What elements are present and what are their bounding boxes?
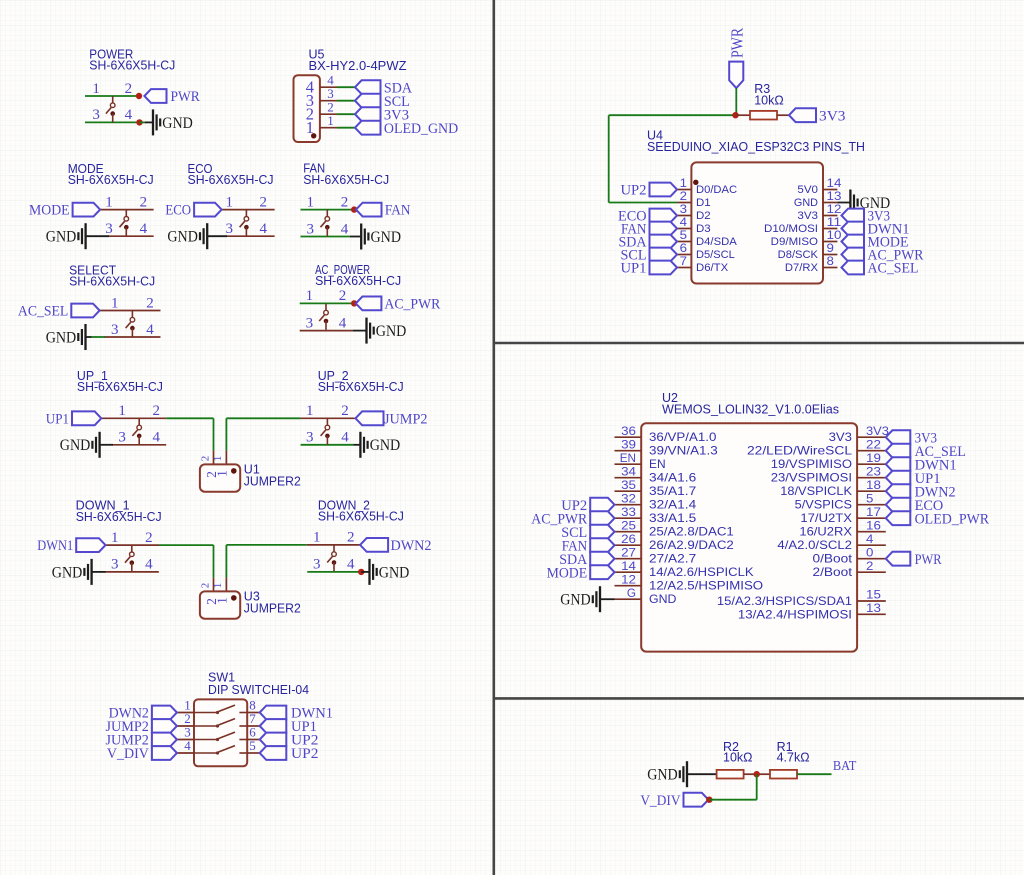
svg-text:GND: GND — [379, 564, 410, 581]
ic U4 pin 1 name D0/DAC — [696, 184, 737, 196]
ic U2 pin 32 number — [621, 491, 636, 505]
svg-text:D4/SDA: D4/SDA — [696, 236, 738, 248]
ic U2 pin 12 name 12/A2.5/HSPIMISO — [649, 579, 763, 593]
ic U2 pin 3V3 stub — [857, 436, 886, 438]
switch UP_2 labels — [318, 369, 404, 394]
wire UP_2 pin4 to ground — [354, 444, 361, 446]
ic U2 pin 22 stub — [857, 450, 886, 452]
junction dot R2 R1 — [754, 771, 760, 777]
svg-text:GND: GND — [376, 323, 407, 340]
svg-text:SEEDUINO_XIAO_ESP32C3 PINS_TH: SEEDUINO_XIAO_ESP32C3 PINS_TH — [647, 140, 865, 154]
svg-text:PWR: PWR — [171, 89, 200, 105]
svg-text:13: 13 — [866, 601, 881, 615]
net flag ECO at U2 pin 5 — [886, 498, 944, 514]
wire U2 pin G to ground — [600, 598, 615, 600]
switch MODE wires — [100, 210, 154, 237]
ic U2 pin 15 name 15/A2.3/HSPICS/SDA1 — [717, 594, 852, 608]
net flag V_DIV — [640, 793, 708, 809]
svg-text:4: 4 — [125, 107, 133, 123]
resistor R3 — [736, 111, 790, 120]
net flag JUMP2 at SW1 pin 3 — [106, 733, 177, 749]
svg-text:DWN2: DWN2 — [391, 538, 432, 554]
resistor R2 — [717, 770, 757, 779]
svg-text:4: 4 — [341, 430, 349, 446]
svg-text:33: 33 — [621, 505, 636, 519]
net flag ECO at U4 pin 3 — [618, 209, 677, 225]
svg-text:1: 1 — [118, 403, 126, 419]
jumper U3 body — [200, 591, 240, 618]
svg-text:15/A2.3/HSPICS/SDA1: 15/A2.3/HSPICS/SDA1 — [717, 594, 852, 608]
ground GND at U2 — [560, 586, 600, 612]
resistor R1 labels — [777, 740, 810, 765]
wire AC_POWER pin4 to ground — [353, 330, 367, 332]
svg-text:1: 1 — [306, 403, 314, 419]
svg-text:SH-6X6X5H-CJ: SH-6X6X5H-CJ — [69, 275, 155, 289]
jumper U1 pin numbers — [199, 456, 224, 462]
svg-text:2: 2 — [145, 530, 153, 546]
ic U2 pin 27 number — [621, 545, 636, 559]
net flag AC_SEL at U2 pin 22 — [886, 444, 966, 460]
net flag DWN2 — [360, 538, 431, 554]
dip switch SW1 pin 3 number — [184, 725, 191, 740]
svg-text:G: G — [627, 586, 636, 600]
svg-text:1: 1 — [111, 530, 119, 546]
svg-text:5: 5 — [866, 491, 874, 505]
switch AC_POWER labels — [315, 263, 401, 288]
ic U2 pin 34 name 34/A1.6 — [649, 471, 697, 485]
dip switch SW1 internal switch row 2 — [194, 719, 247, 728]
svg-text:14/A2.6/HSPICLK: 14/A2.6/HSPICLK — [649, 565, 754, 579]
net flag PWR vertical — [727, 28, 746, 88]
svg-text:33/A1.5: 33/A1.5 — [649, 511, 697, 525]
ic U2 pin 33 name 33/A1.5 — [649, 511, 697, 525]
ic U2 pin 4 name 4/A2.0/SCL2 — [777, 538, 852, 552]
net flag DWN1 at U2 pin 19 — [886, 457, 957, 473]
svg-text:26: 26 — [621, 532, 636, 546]
ic U4 pin 11 name D10/MOSI — [764, 223, 818, 235]
wire DOWN_1 pin3 to ground — [92, 571, 106, 573]
svg-text:JUMPER2: JUMPER2 — [244, 601, 301, 615]
switch SELECT labels — [69, 263, 155, 288]
svg-text:23/VSPIMOSI: 23/VSPIMOSI — [771, 471, 852, 485]
svg-text:3: 3 — [306, 315, 314, 331]
net flag FAN — [356, 203, 411, 219]
ic U4 pin 12 stub — [823, 215, 837, 217]
svg-text:4: 4 — [259, 221, 267, 237]
svg-text:D0/DAC: D0/DAC — [696, 184, 737, 196]
ic U2 pin 4 number — [866, 532, 874, 546]
dip switch SW1 pin 4 stub — [177, 752, 194, 754]
svg-text:6: 6 — [680, 241, 688, 255]
ic U4 pin 10 name D9/MISO — [771, 236, 818, 248]
ground GND at R2 — [647, 761, 687, 787]
connector U5 pin name 1 — [306, 118, 314, 137]
svg-text:14: 14 — [827, 176, 842, 190]
wire U5 pin 2 — [337, 113, 355, 115]
ic U2 pin 36 stub — [615, 436, 642, 438]
svg-text:GND: GND — [162, 115, 193, 132]
svg-text:1: 1 — [212, 583, 224, 589]
ic U2 pin 25 stub — [615, 531, 642, 533]
svg-text:11: 11 — [827, 215, 842, 229]
ic U4 pin 11 stub — [823, 228, 837, 230]
dip switch SW1 pin 5 number — [249, 738, 256, 753]
connector U5 pin 1 number — [327, 113, 334, 128]
svg-text:BX-HY2.0-4PWZ: BX-HY2.0-4PWZ — [309, 59, 407, 73]
net flag UP2 at U4 pin 1 — [621, 183, 678, 199]
net flag DWN1 at SW1 pin 8 — [260, 706, 333, 722]
switch SELECT wires — [100, 311, 161, 338]
ic U2 pin 4 stub — [857, 544, 886, 546]
svg-text:D1: D1 — [696, 197, 711, 209]
svg-text:GND: GND — [167, 229, 198, 246]
jumper U3 pin numbers — [199, 583, 224, 589]
ic U4 pin 14 number — [827, 176, 842, 190]
jumper U3 pin stubs — [214, 578, 227, 592]
svg-text:4: 4 — [146, 322, 154, 338]
ic U2 pin 2 name 2/Boot — [813, 565, 853, 579]
ground GND at UP_1 — [60, 432, 100, 458]
ic U4 body — [691, 162, 823, 283]
ic U2 pin 15 number — [866, 588, 881, 602]
svg-text:5: 5 — [249, 738, 256, 753]
svg-text:AC_SEL: AC_SEL — [18, 304, 68, 320]
svg-text:GND: GND — [371, 229, 402, 246]
dip switch SW1 pin 1 stub — [177, 712, 194, 714]
svg-text:D6/TX: D6/TX — [696, 262, 728, 274]
svg-text:ECO: ECO — [165, 203, 191, 219]
wire ECO pin3 to ground — [207, 235, 227, 237]
svg-text:1: 1 — [327, 113, 334, 128]
svg-text:23: 23 — [866, 464, 881, 478]
svg-text:SH-6X6X5H-CJ: SH-6X6X5H-CJ — [77, 380, 163, 394]
net flag AC_PWR at U4 pin 9 — [842, 248, 924, 264]
svg-text:2: 2 — [339, 288, 347, 304]
svg-text:4: 4 — [866, 532, 874, 546]
svg-text:4/A2.0/SCL2: 4/A2.0/SCL2 — [777, 538, 852, 552]
svg-text:15: 15 — [866, 588, 881, 602]
net flag SDA at U4 pin 5 — [619, 235, 678, 251]
svg-text:SH-6X6X5H-CJ: SH-6X6X5H-CJ — [188, 173, 274, 187]
switch POWER contact — [106, 96, 115, 123]
junction dot V_DIV — [706, 797, 712, 803]
ic U4 pin 7 number — [680, 254, 688, 268]
switch DOWN_1 contact — [125, 545, 134, 572]
switch UP_1 wires — [101, 418, 166, 445]
ic U2 pin 33 stub — [615, 517, 642, 519]
net flag 3V3 — [355, 107, 409, 123]
svg-text:4: 4 — [153, 430, 161, 446]
ic U2 pin 13 stub — [857, 613, 886, 615]
connector U5 pin 4 number — [327, 73, 334, 88]
svg-text:SH-6X6X5H-CJ: SH-6X6X5H-CJ — [89, 59, 175, 73]
jumper U3 pin names — [204, 597, 230, 605]
ic U2 pin 34 stub — [615, 477, 642, 479]
dip switch SW1 pin 6 stub — [247, 739, 260, 741]
svg-text:39/VN/A1.3: 39/VN/A1.3 — [649, 444, 718, 458]
svg-text:4: 4 — [341, 221, 349, 237]
net flag UP2 at SW1 pin 6 — [260, 733, 319, 749]
net flag JUMP2 — [356, 411, 428, 427]
ic U4 pin 13 name GND — [794, 197, 818, 209]
svg-text:3: 3 — [118, 430, 126, 446]
svg-text:3V3: 3V3 — [866, 424, 889, 438]
dip switch SW1 pin 4 number — [184, 738, 191, 753]
ic U2 pin 23 stub — [857, 477, 886, 479]
svg-text:22/LED/WireSCL: 22/LED/WireSCL — [747, 444, 852, 458]
ic U2 pin 17 stub — [857, 517, 886, 519]
switch ECO wires — [222, 210, 275, 237]
resistor R3 labels — [754, 82, 784, 108]
wire DOWN_2 pin4 to ground — [361, 571, 369, 573]
svg-text:GND: GND — [52, 564, 83, 581]
switch POWER pin numbers — [92, 81, 132, 123]
ic U2 pin 18 stub — [857, 490, 886, 492]
switch DOWN_1 pin numbers — [111, 530, 153, 573]
svg-text:2: 2 — [140, 194, 148, 210]
ground GND at SELECT — [46, 324, 86, 350]
resistor R2 labels — [723, 740, 753, 765]
ic U2 labels — [662, 391, 839, 417]
net flag FAN at U2 pin 26 — [562, 538, 615, 554]
connector U5 pin name 4 — [306, 78, 314, 97]
svg-text:GND: GND — [794, 197, 818, 209]
svg-text:1: 1 — [306, 194, 314, 210]
ic U2 pin 16 stub — [857, 531, 886, 533]
ic U2 pin EN number — [620, 451, 636, 465]
svg-text:17/U2TX: 17/U2TX — [800, 511, 852, 525]
svg-text:13: 13 — [827, 189, 842, 203]
svg-text:1: 1 — [212, 456, 224, 462]
ic U2 pin 5 stub — [857, 504, 886, 506]
ic U2 pin 23 number — [866, 464, 881, 478]
ground GND at POWER — [153, 109, 193, 135]
wire DOWN_2 pin1 to U3 pin1 — [226, 545, 306, 578]
net flag MODE at U2 pin 14 — [547, 565, 615, 581]
connector U5 body — [294, 75, 320, 142]
wire UP_1 pin2 to U1 pin2 — [166, 418, 213, 450]
ic U4 pin 10 number — [827, 228, 842, 242]
ic U4 pin 2 stub — [677, 202, 691, 204]
jumper U3 labels — [244, 589, 301, 615]
switch ECO contact — [240, 210, 249, 237]
net flag DWN1 — [37, 538, 105, 554]
jumper U1 body — [200, 464, 240, 491]
svg-text:5/VSPICS: 5/VSPICS — [795, 498, 852, 512]
junction dot AC_POWER pin2 — [351, 300, 357, 306]
ic U2 pin 12 number — [621, 572, 636, 586]
switch UP_1 pin numbers — [118, 403, 160, 446]
jumper U3 pin1 indicator dot — [231, 595, 237, 601]
junction dot PWR R3 — [732, 112, 738, 118]
svg-text:GND: GND — [46, 229, 77, 246]
svg-text:1: 1 — [92, 81, 100, 97]
svg-text:4: 4 — [184, 738, 191, 753]
svg-text:3: 3 — [306, 221, 314, 237]
switch AC_POWER wires — [300, 303, 355, 330]
svg-text:D2: D2 — [696, 210, 711, 222]
svg-text:3V3: 3V3 — [819, 108, 846, 124]
dip switch SW1 pin 7 stub — [247, 725, 260, 727]
net flag 3V3 at U2 pin 3V3 — [886, 430, 937, 446]
ground GND at MODE — [46, 223, 86, 249]
switch POWER wires — [85, 96, 140, 122]
ic U2 pin 17 name 17/U2TX — [800, 511, 852, 525]
svg-text:5V0: 5V0 — [797, 184, 818, 196]
net label BAT — [833, 759, 857, 774]
switch DOWN_2 contact — [327, 545, 336, 572]
ic U2 pin 14 number — [621, 559, 636, 573]
svg-text:JUMP2: JUMP2 — [384, 411, 428, 427]
wire junction to U4 pin D1 — [609, 115, 736, 202]
switch UP_2 pin numbers — [306, 403, 349, 446]
svg-text:WEMOS_LOLIN32_V1.0.0Elias: WEMOS_LOLIN32_V1.0.0Elias — [662, 403, 839, 417]
ic U2 pin 0 stub — [857, 558, 886, 560]
switch FAN wires — [301, 210, 355, 237]
net flag DWN2 at U2 pin 18 — [886, 484, 956, 500]
svg-text:3: 3 — [111, 322, 119, 338]
ground GND at FAN — [361, 224, 401, 250]
net flag 3V3 at R3 — [789, 108, 846, 124]
svg-text:12: 12 — [621, 572, 636, 586]
ic U4 pin 3 name D2 — [696, 210, 711, 222]
svg-text:2/Boot: 2/Boot — [813, 565, 853, 579]
wire V_DIV to junction — [709, 774, 756, 800]
svg-text:35: 35 — [621, 478, 636, 492]
ic U4 pin 10 stub — [823, 241, 837, 243]
switch MODE labels — [68, 162, 154, 187]
svg-text:34/A1.6: 34/A1.6 — [649, 471, 697, 485]
ic U2 pin 36 number — [621, 424, 636, 438]
ground GND at DOWN_1 — [52, 559, 92, 585]
net flag ECO — [165, 203, 221, 219]
ic U2 pin 22 number — [866, 437, 881, 451]
connector U5 pin1 indicator dot — [311, 133, 316, 138]
svg-text:7: 7 — [680, 254, 688, 268]
ic U4 pin 2 name D1 — [696, 197, 711, 209]
svg-text:4.7kΩ: 4.7kΩ — [777, 751, 810, 765]
ic U2 pin 39 number — [621, 437, 636, 451]
switch UP_1 labels — [77, 369, 163, 394]
dip switch SW1 pin 6 number — [249, 725, 256, 740]
ic U2 pin 12 stub — [615, 585, 642, 587]
net flag OLED_PWR at U2 pin 17 — [886, 511, 989, 527]
dip switch SW1 internal switch row 3 — [194, 732, 247, 741]
wire U5 pin 4 — [337, 86, 355, 88]
svg-text:4: 4 — [339, 315, 347, 331]
dip switch SW1 pin 5 stub — [247, 752, 260, 754]
svg-text:2: 2 — [866, 559, 874, 573]
svg-text:35/A1.7: 35/A1.7 — [649, 484, 697, 498]
svg-text:10kΩ: 10kΩ — [723, 751, 753, 765]
switch DOWN_1 labels — [76, 499, 162, 524]
connector U5 pin 2 number — [327, 100, 334, 115]
svg-text:UP2: UP2 — [291, 746, 319, 762]
switch FAN pin numbers — [306, 194, 348, 237]
svg-text:3: 3 — [680, 202, 688, 216]
switch SELECT pin numbers — [111, 295, 154, 338]
ic U4 pin 6 name D5/SCL — [696, 249, 735, 261]
svg-text:1: 1 — [105, 194, 113, 210]
switch DOWN_2 pin numbers — [313, 530, 355, 573]
ic U2 pin 26 stub — [615, 544, 642, 546]
svg-text:39: 39 — [621, 437, 636, 451]
net flag PWR at U2 pin 0 — [886, 552, 942, 568]
svg-text:AC_SEL: AC_SEL — [868, 261, 919, 277]
svg-text:32: 32 — [621, 491, 636, 505]
ic U4 pin 9 name D8/SCK — [778, 249, 818, 261]
ic U2 pin 18 name 18/VSPICLK — [780, 484, 852, 498]
ground GND at ECO — [167, 223, 207, 249]
svg-text:PWR: PWR — [727, 28, 746, 58]
svg-text:12: 12 — [827, 202, 842, 216]
svg-text:2: 2 — [341, 403, 349, 419]
svg-text:19/VSPIMISO: 19/VSPIMISO — [771, 457, 852, 471]
net flag UP1 at SW1 pin 7 — [260, 719, 317, 735]
switch SELECT contact — [126, 311, 135, 338]
svg-text:D5/SCL: D5/SCL — [696, 249, 735, 261]
svg-text:8: 8 — [827, 254, 835, 268]
ic U2 pin 23 name 23/VSPIMOSI — [771, 471, 852, 485]
svg-text:3: 3 — [225, 221, 233, 237]
svg-text:1: 1 — [306, 288, 314, 304]
net flag PWR — [144, 89, 199, 105]
ic U2 pin 26 number — [621, 532, 636, 546]
wire DOWN_1 pin2 to U3 pin2 — [159, 545, 214, 578]
ic U2 pin 19 number — [866, 451, 881, 465]
svg-text:SH-6X6X5H-CJ: SH-6X6X5H-CJ — [68, 173, 154, 187]
ground GND at AC_POWER — [367, 318, 407, 344]
ic U2 pin 5 name 5/VSPICS — [795, 498, 852, 512]
ic U4 pin 5 stub — [677, 241, 691, 243]
ic U2 pin 13 name 13/A2.4/HSPIMOSI — [738, 607, 852, 621]
connector U5 pin 1 stub — [320, 127, 337, 129]
ic U4 labels — [647, 129, 865, 155]
svg-text:SH-6X6X5H-CJ: SH-6X6X5H-CJ — [303, 173, 389, 187]
ic U2 pin 35 stub — [615, 490, 642, 492]
svg-text:GND: GND — [647, 767, 678, 784]
svg-text:1: 1 — [214, 597, 229, 604]
svg-text:MODE: MODE — [29, 203, 70, 219]
svg-text:2: 2 — [199, 456, 211, 462]
ic U4 pin 1 stub — [677, 189, 691, 191]
ground GND at DOWN_2 — [370, 559, 410, 585]
net flag UP1 at U2 pin 23 — [886, 471, 941, 487]
ic U4 pin 14 stub — [823, 189, 837, 191]
svg-text:27: 27 — [621, 545, 636, 559]
svg-text:10: 10 — [827, 228, 842, 242]
svg-text:18: 18 — [866, 478, 881, 492]
wire ground to R2 — [687, 773, 717, 775]
svg-text:18/VSPICLK: 18/VSPICLK — [780, 484, 852, 498]
svg-text:16: 16 — [866, 518, 881, 532]
net flag UP1 at U4 pin 7 — [621, 261, 678, 277]
ic U4 pin 4 stub — [677, 228, 691, 230]
svg-text:2: 2 — [341, 194, 349, 210]
dip switch SW1 internal switch row 1 — [194, 705, 247, 714]
ic U2 pin 3V3 name 3V3 — [829, 430, 853, 444]
svg-text:14: 14 — [621, 559, 636, 573]
dip switch SW1 pin 7 number — [249, 711, 256, 726]
connector U5 pin 3 number — [327, 86, 334, 101]
ic U2 pin 33 number — [621, 505, 636, 519]
svg-text:2: 2 — [347, 530, 355, 546]
switch FAN contact — [321, 210, 330, 237]
svg-text:EN: EN — [620, 451, 636, 465]
ic U4 pin 6 stub — [677, 254, 691, 256]
ic U2 pin 14 name 14/A2.6/HSPICLK — [649, 565, 754, 579]
ic U2 pin 0 name 0/Boot — [813, 552, 853, 566]
